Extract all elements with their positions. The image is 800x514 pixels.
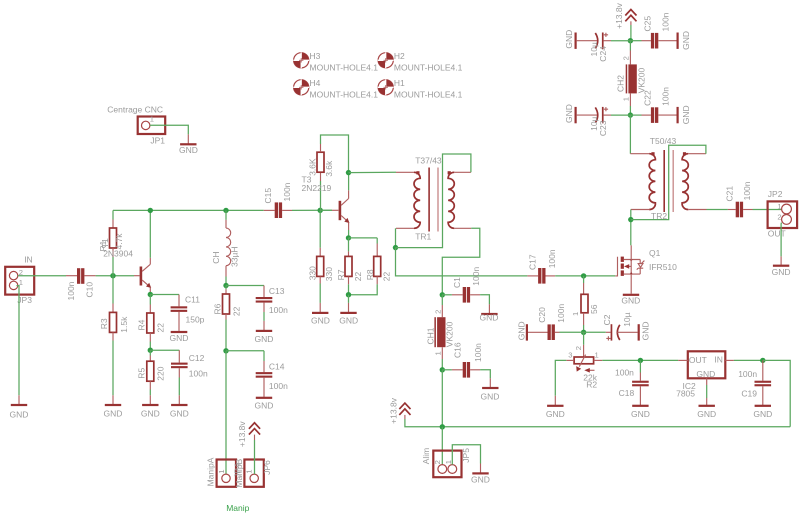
svg-text:ManipA: ManipA [206, 457, 216, 486]
wire C10 to T1 base [96, 275, 134, 277]
svg-text:1: 1 [571, 312, 580, 316]
transistor T1 2N3904 [140, 267, 143, 286]
junction 3.6k / base node [318, 208, 323, 213]
svg-text:GND: GND [753, 409, 772, 419]
wire R2 pin1 to 7805 OUT [594, 359, 603, 361]
svg-text:100n: 100n [556, 304, 566, 323]
svg-text:+13.8v: +13.8v [389, 397, 399, 424]
junction gate / 56 node [581, 273, 586, 278]
svg-text:22: 22 [381, 271, 391, 281]
Q1 body diode (zener) [639, 260, 641, 264]
svg-text:C11: C11 [185, 295, 200, 305]
resistor R1 [112, 210, 114, 219]
svg-text:C10: C10 [85, 282, 95, 298]
svg-text:1: 1 [595, 351, 599, 360]
svg-text:H1: H1 [394, 78, 405, 88]
svg-text:GND: GND [631, 409, 650, 419]
ground GND under C19 [755, 405, 771, 407]
junction CH bottom / R6 / C13 [223, 283, 228, 288]
junction C19 / IN node [760, 358, 765, 363]
wire rail down to JP5 pin2 [441, 427, 443, 465]
capacitor C1 [442, 294, 452, 296]
trimmer R2 22k [583, 332, 585, 345]
capacitor C19 [762, 360, 764, 380]
ground GND under JP3 [18, 395, 20, 404]
capacitor C21 [728, 209, 736, 211]
svg-text:100n: 100n [615, 368, 634, 378]
svg-text:JP5: JP5 [461, 448, 471, 463]
svg-text:GND: GND [471, 475, 490, 485]
capacitor C12 [178, 350, 180, 362]
capacitor C13 [263, 286, 265, 298]
svg-text:150p: 150p [186, 314, 205, 324]
plus marker (C24) [604, 33, 608, 37]
svg-text:H3: H3 [310, 51, 321, 61]
Q1 gate lead [615, 257, 617, 276]
capacitor C17 [527, 275, 538, 277]
ground GND (rotated) at C20 [526, 324, 528, 340]
ground GND under C12 [178, 395, 180, 404]
svg-text:JP1: JP1 [150, 135, 165, 145]
svg-text:56: 56 [589, 304, 599, 314]
svg-text:22: 22 [155, 323, 165, 333]
svg-text:R5: R5 [137, 368, 147, 379]
connector JP6 [244, 460, 263, 487]
pin OUT lead [678, 359, 688, 361]
svg-text:3: 3 [568, 351, 572, 360]
TR1 primary pin top [396, 171, 414, 173]
wire base node to T3 [320, 209, 332, 211]
Q1 source connection [624, 273, 640, 275]
svg-text:IFR510: IFR510 [649, 262, 677, 272]
junction C18 node [638, 358, 643, 363]
TR1 secondary winding [448, 172, 454, 228]
capacitor C20 [528, 331, 548, 333]
svg-text:MOUNT-HOLE4.1: MOUNT-HOLE4.1 [310, 63, 379, 73]
svg-text:GND: GND [681, 31, 691, 50]
svg-text:+13.8v: +13.8v [614, 2, 624, 29]
wire TR1 left-bottom down to junction [395, 228, 397, 247]
TR2 primary winding [649, 154, 655, 210]
svg-text:C15: C15 [263, 188, 273, 204]
junction TR2 / Q1 drain node [628, 217, 633, 222]
wire tap node to C17 line [396, 248, 528, 276]
svg-text:GND: GND [517, 321, 527, 340]
wire TR2 node down to Q1 drain [630, 220, 632, 246]
capacitor C25 [630, 40, 641, 42]
wire C15 to 3.6k node [292, 209, 332, 211]
svg-text:7805: 7805 [676, 389, 695, 399]
svg-text:GND: GND [311, 316, 330, 326]
ground GND at Q1 source [623, 294, 639, 296]
resistor R6 [225, 286, 227, 290]
svg-text:TR1: TR1 [415, 231, 431, 241]
junction R6 bottom / C14 / ManipA [223, 348, 228, 353]
svg-text:R3: R3 [99, 318, 109, 329]
svg-text:VK200: VK200 [637, 68, 647, 94]
TR1 polarity dot secondary [448, 171, 451, 174]
TR2 polarity dot primary [651, 152, 654, 155]
ground GND at C1 [488, 304, 490, 313]
wire JP5 pin1 to ground [452, 445, 480, 465]
svg-text:22: 22 [232, 306, 242, 316]
svg-text:GND: GND [640, 322, 650, 341]
svg-text:CH1: CH1 [426, 327, 436, 344]
svg-text:1: 1 [621, 97, 630, 101]
wire R6 node down to ManipA pin [225, 351, 227, 474]
junction TR1 tap node [393, 245, 398, 250]
svg-text:GND: GND [10, 409, 29, 419]
svg-text:100n: 100n [471, 267, 481, 286]
junction C1 / CH1 node [440, 292, 445, 297]
connector JP5 (Alim) [433, 451, 461, 478]
svg-text:C20: C20 [537, 307, 547, 323]
svg-text:2: 2 [777, 213, 781, 222]
regulator IC2 7805 [688, 351, 726, 378]
Q1 substrate arrow [628, 265, 631, 267]
svg-text:3.6K: 3.6K [307, 158, 317, 176]
svg-text:C13: C13 [269, 286, 285, 296]
svg-text:Q1: Q1 [649, 248, 661, 258]
connector JP2 [768, 201, 798, 228]
wire R2 pin3 to ground [566, 359, 574, 361]
junction rail / JP5 feed [440, 424, 445, 429]
ground GND under R5 [149, 395, 151, 404]
transistor T3 2N2219 [332, 209, 338, 211]
mount hole H1 [378, 78, 463, 100]
junction CH1 bottom / C16 node [440, 367, 445, 372]
TR2 core line 1 [663, 150, 665, 212]
ground GND under 330 [319, 303, 321, 312]
svg-text:1: 1 [433, 351, 442, 355]
svg-text:2N2219: 2N2219 [302, 183, 332, 193]
wire C23 node down to TR2 [629, 115, 631, 154]
TR2 secondary pin bottom [688, 209, 706, 211]
svg-text:JP4: JP4 [233, 463, 243, 478]
mount hole H3 [293, 51, 378, 73]
junction T3 emitter / R7 R8 node [346, 235, 351, 240]
resistor 330 [319, 248, 321, 257]
svg-text:GND: GND [170, 409, 189, 419]
wire top rail VCC-left [113, 209, 264, 211]
capacitor C24 10u polarized [577, 40, 598, 42]
junction C24 / C25 node [628, 38, 633, 43]
mosfet Q1 IFR510 [615, 245, 677, 293]
resistor 3.6k [320, 181, 322, 210]
svg-text:GND: GND [255, 401, 274, 411]
R2 adjust arrow [589, 369, 595, 371]
wire series link TR2 windings [631, 145, 706, 219]
wire node to C14 [226, 350, 264, 352]
svg-text:CH: CH [211, 251, 221, 263]
ground GND at JP2 [780, 256, 782, 264]
svg-text:C2: C2 [602, 314, 612, 325]
wire TR2 secondary to C21 [707, 209, 728, 211]
svg-text:GND: GND [772, 267, 791, 277]
svg-text:JP2: JP2 [768, 189, 783, 199]
svg-text:R6: R6 [213, 303, 223, 314]
resistor R5 [149, 350, 151, 355]
svg-text:MOUNT-HOLE4.1: MOUNT-HOLE4.1 [310, 90, 379, 100]
wire C17 to gate node [555, 275, 615, 277]
svg-text:GND: GND [141, 409, 160, 419]
resistor R7 [348, 238, 350, 252]
TR1 core line 1 [428, 168, 430, 232]
svg-text:GND: GND [564, 30, 574, 49]
svg-text:GND: GND [339, 316, 358, 326]
TR1 secondary pin bottom [454, 227, 471, 229]
connector JP3 pin 1 pad [9, 281, 17, 289]
svg-text:C12: C12 [189, 353, 205, 363]
capacitor C23 10u polarized [577, 114, 598, 116]
svg-text:22: 22 [353, 271, 363, 281]
svg-text:R8: R8 [365, 269, 375, 280]
svg-text:R2: R2 [586, 380, 597, 390]
svg-text:1: 1 [777, 202, 781, 211]
capacitor C16 [442, 369, 452, 371]
svg-text:GND: GND [480, 313, 499, 323]
svg-text:GND: GND [546, 409, 565, 419]
svg-text:H2: H2 [394, 51, 405, 61]
connector ManipA [217, 460, 236, 487]
wire CH1 node down to +13.8v rail [441, 370, 443, 427]
svg-text:C19: C19 [741, 389, 757, 399]
svg-text:GND: GND [564, 104, 574, 123]
svg-text:R4: R4 [137, 319, 147, 330]
svg-text:IN: IN [714, 355, 723, 365]
svg-text:CH2: CH2 [616, 75, 626, 92]
svg-text:2: 2 [621, 56, 630, 60]
resistor R4 [149, 295, 151, 305]
svg-text:Manip: Manip [226, 503, 249, 513]
capacitor C15 [264, 209, 275, 211]
supply +13.8v arrow above JP6 [249, 423, 260, 435]
resistor 56 [583, 276, 585, 283]
ground GND under C14 [256, 397, 272, 399]
ground GND under R3 [112, 395, 114, 404]
wire JP3 pin2 to C10 [18, 275, 66, 277]
svg-text:C18: C18 [619, 388, 635, 398]
capacitor C22 [630, 114, 641, 116]
junction CH / rail [223, 208, 228, 213]
wire R7/R8 top link [349, 237, 378, 239]
svg-text:GND: GND [255, 334, 274, 344]
junction base/R1/R3 node [110, 273, 115, 278]
wire node to C12 [150, 349, 179, 351]
svg-text:2: 2 [433, 460, 442, 464]
svg-text:220: 220 [155, 366, 165, 380]
svg-text:100n: 100n [66, 281, 76, 300]
svg-text:1: 1 [245, 469, 254, 473]
mount hole H2 [378, 51, 463, 73]
svg-text:T37/43: T37/43 [415, 156, 442, 166]
choke CH1 VK200 [441, 295, 443, 305]
svg-text:Centrage CNC: Centrage CNC [107, 105, 163, 115]
connector JP3 box [5, 267, 34, 295]
svg-text:100n: 100n [282, 182, 292, 201]
ground GND under R7 [348, 295, 350, 303]
TR2 core line 2 [672, 150, 674, 212]
wire TR1 right-bottom to C1 node [442, 228, 480, 294]
wire collector node to TR1 primary [349, 171, 397, 173]
transformer TR1 T37/43 [396, 156, 471, 242]
svg-text:100n: 100n [660, 87, 670, 106]
svg-text:1: 1 [217, 469, 226, 473]
svg-text:10µ: 10µ [622, 312, 632, 326]
wire JP1 pin to ground [150, 125, 188, 134]
svg-text:100n: 100n [189, 369, 208, 379]
ground GND (rotated) at C23 [575, 107, 577, 123]
connector JP3 pin 2 pad [9, 271, 17, 279]
ground GND at R2 [554, 396, 556, 405]
R2 wiper arrow [579, 355, 585, 367]
Q1 internal vertical [630, 260, 632, 275]
wire node to C13 [226, 285, 264, 287]
ground GND at C16 [489, 378, 491, 387]
TR2 secondary pin top [688, 153, 706, 155]
TR1 secondary pin top [454, 171, 471, 173]
transformer TR2 T50/43 [630, 136, 706, 221]
TR1 polarity dot primary [416, 171, 419, 174]
supply +13.8v arrow (top) [625, 10, 636, 22]
svg-text:2: 2 [433, 310, 442, 314]
svg-text:4.7k: 4.7k [114, 233, 124, 250]
svg-text:OUT: OUT [689, 355, 707, 365]
svg-text:100n: 100n [269, 305, 288, 315]
svg-text:100n: 100n [742, 181, 752, 200]
capacitor C2 10u [584, 331, 606, 333]
svg-text:2N3904: 2N3904 [103, 249, 133, 259]
wire arrow down to C24 node [630, 21, 632, 25]
svg-text:100n: 100n [473, 343, 483, 362]
svg-text:1: 1 [444, 460, 453, 464]
wire arrow to JP6 pin [254, 435, 256, 440]
svg-text:MOUNT-HOLE4.1: MOUNT-HOLE4.1 [394, 90, 463, 100]
svg-text:C16: C16 [453, 342, 463, 358]
svg-text:GND: GND [481, 392, 500, 402]
TR1 core line 2 [437, 168, 439, 232]
wire 3.6k top to T3 collector node [321, 135, 349, 173]
capacitor C11 [178, 295, 180, 307]
svg-text:MOUNT-HOLE4.1: MOUNT-HOLE4.1 [394, 63, 463, 73]
wire JP2 pin2 to ground [780, 223, 782, 257]
pin IN lead [725, 359, 734, 361]
svg-text:OUT: OUT [768, 229, 786, 239]
Q1 drain connection [624, 259, 640, 261]
ground GND under IC2 [699, 405, 715, 407]
TR1 primary pin bottom [396, 227, 414, 229]
svg-text:100n: 100n [269, 381, 288, 391]
plus marker (C23) [604, 107, 608, 111]
ground GND (rotated) at C2 [638, 324, 640, 340]
junction R4/R5/C12 node [148, 348, 153, 353]
svg-text:H4: H4 [310, 78, 321, 88]
svg-text:33µH: 33µH [229, 247, 239, 267]
svg-text:GND: GND [179, 145, 198, 155]
TR2 polarity dot secondary [683, 152, 686, 155]
svg-text:100n: 100n [547, 249, 557, 268]
ground GND under C11 [171, 331, 188, 333]
ground GND at JP1 [187, 134, 189, 143]
svg-text:C23: C23 [598, 120, 608, 136]
wire 330 feed [319, 210, 321, 248]
resistor R8 [376, 238, 378, 244]
svg-text:JP6: JP6 [262, 460, 272, 475]
junction 56 / C20 / C2 / R2 node [581, 330, 586, 335]
wire C21 to JP2 pin1 [753, 209, 782, 211]
svg-text:GND: GND [170, 333, 189, 343]
svg-text:330: 330 [308, 266, 318, 280]
svg-text:R7: R7 [336, 269, 346, 280]
wire IN node to rail [763, 360, 790, 426]
svg-text:C17: C17 [528, 254, 538, 270]
svg-text:C25: C25 [643, 16, 653, 32]
ground GND under C13 [263, 321, 265, 330]
junction T1 emitter node [148, 292, 153, 297]
svg-text:100n: 100n [660, 12, 670, 31]
ground GND at JP5 [480, 464, 482, 473]
svg-text:2: 2 [574, 346, 583, 350]
ground GND under C18 [632, 405, 648, 407]
junction R7 bottom node [346, 292, 351, 297]
capacitor C14 [263, 351, 265, 361]
svg-text:C22: C22 [643, 90, 653, 106]
svg-text:T1: T1 [100, 238, 110, 248]
TR2 primary pin bottom [631, 209, 649, 211]
svg-text:GND: GND [621, 295, 640, 305]
supply +13.8v arrow (rail) [399, 403, 410, 415]
mount hole H4 [293, 78, 378, 100]
svg-text:+13.8v: +13.8v [237, 421, 247, 448]
Q1 channel bars [621, 257, 624, 262]
svg-text:C14: C14 [269, 361, 285, 371]
TR1 primary winding [414, 172, 420, 228]
wire series link left-bottom to right-top [396, 154, 471, 248]
resistor R3 [112, 276, 114, 304]
wire emitter to C11 [150, 294, 179, 296]
capacitor C18 [639, 360, 641, 372]
svg-text:Alim: Alim [421, 448, 431, 465]
svg-text:IN: IN [24, 254, 33, 264]
wire arrow to rail [404, 415, 406, 419]
junction T3 collector node [346, 170, 351, 175]
svg-text:330: 330 [324, 267, 334, 281]
svg-text:1: 1 [150, 115, 154, 124]
choke CH2 VK200 [629, 41, 631, 51]
ground GND (rotated) at C24 [575, 33, 577, 49]
pin GND lead to ground [706, 378, 708, 385]
capacitor C10 [66, 275, 77, 277]
TR2 primary pin top [630, 153, 649, 155]
svg-text:C1: C1 [452, 277, 462, 288]
svg-text:GND: GND [697, 409, 716, 419]
svg-text:C24: C24 [598, 46, 608, 62]
wire TR2 left-bottom to Q1 node [630, 210, 632, 220]
svg-text:100n: 100n [738, 369, 757, 379]
ground GND (rotated) at C22 [677, 107, 679, 123]
inductor CH 33uH [225, 210, 227, 220]
svg-text:GND: GND [696, 369, 715, 379]
svg-text:C21: C21 [725, 186, 735, 202]
ground GND (rotated) at C25 [677, 33, 679, 49]
TR2 secondary winding [682, 154, 688, 210]
svg-text:3.6k: 3.6k [324, 160, 334, 177]
svg-text:1.5k: 1.5k [119, 316, 129, 333]
plus marker (C2) [606, 336, 610, 340]
svg-text:GND: GND [104, 409, 123, 419]
junction T1 collector / rail [148, 208, 153, 213]
wire JP3 pin1 down to ground [17, 286, 20, 396]
